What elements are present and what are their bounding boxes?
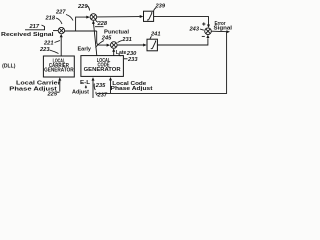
plus sign at summer (202, 22, 205, 25)
svg-text:228: 228 (97, 21, 108, 27)
wire: error signal arrow (211, 30, 227, 33)
wire: late code from code gen up into late mixer (113, 51, 115, 56)
svg-text:231: 231 (121, 37, 132, 43)
tiny arrow between E-L and Adjust (85, 86, 87, 88)
svg-text:E-L: E-L (80, 80, 90, 86)
svg-text:225: 225 (47, 91, 58, 97)
arrowhead into early mixer (86, 16, 90, 19)
box: LOCAL CODE GENERATOR (81, 56, 124, 77)
svg-text:Signal: Signal (214, 26, 233, 32)
svg-text:GENERATOR: GENERATOR (84, 67, 121, 73)
integral symbol in 239 (147, 13, 152, 20)
wire: integrator 241 output to summer bottom (157, 38, 208, 45)
wire: feedback down right side and along bottom (97, 32, 227, 94)
wire: early code from code gen up to early mixer (94, 23, 97, 55)
svg-text:239: 239 (155, 4, 166, 10)
arrowhead into integrator 239 (140, 15, 144, 18)
svg-text:217: 217 (29, 24, 40, 30)
svg-text:221: 221 (43, 41, 54, 47)
svg-text:218: 218 (45, 16, 56, 22)
wire: received signal into mixer 219 (53, 30, 58, 32)
svg-text:(DLL): (DLL) (2, 63, 16, 69)
wire: local carrier phase adjust arrow (59, 80, 61, 92)
summer 243 (205, 28, 212, 35)
label Late bracket (119, 54, 121, 56)
svg-text:245: 245 (101, 36, 112, 42)
wire: early mixer output to integrator 239 (97, 16, 140, 18)
minus sign at summer (202, 35, 205, 37)
wire: feedback up into code generator (local code phase adjust) (110, 80, 112, 93)
svg-text:Phase Adjust: Phase Adjust (111, 86, 153, 92)
integrator box 241 (147, 39, 157, 51)
wire: late mixer output to integrator 241 (117, 44, 143, 46)
svg-text:Adjust: Adjust (72, 90, 89, 96)
mixer U2 (early correlator) (90, 14, 97, 21)
svg-text:229: 229 (77, 4, 88, 10)
arrowhead down into summer (207, 25, 210, 28)
svg-text:Early: Early (78, 47, 92, 53)
integrator box 239 (144, 11, 154, 21)
wire: branch up to early mixer row (76, 17, 87, 31)
wire: punctual drop to punctual mixer (97, 31, 107, 45)
mixer U3 (late correlator) (111, 42, 118, 49)
svg-text:Late: Late (116, 50, 127, 56)
svg-text:235: 235 (95, 83, 106, 89)
wire: carrier from generator up into mixer1 (60, 37, 62, 56)
svg-text:GENERATOR: GENERATOR (44, 68, 74, 74)
svg-text:223: 223 (39, 47, 50, 53)
wire: mixer1 output east to branch (65, 30, 97, 32)
svg-text:243: 243 (189, 27, 200, 33)
svg-text:227: 227 (55, 10, 66, 16)
integral symbol in 241 (151, 41, 156, 49)
mixer U1 (carrier wipeoff) (58, 27, 64, 33)
svg-text:233: 233 (127, 57, 138, 63)
svg-text:Received Signal: Received Signal (1, 32, 54, 38)
svg-text:237: 237 (97, 92, 108, 98)
svg-text:Local Carrier: Local Carrier (16, 80, 61, 86)
svg-text:230: 230 (126, 51, 137, 57)
wire: E-L adjust arrow into code gen (92, 80, 94, 98)
wire: integrator 239 output to summer top (154, 17, 209, 25)
box: LOCAL CARRIER GENERATOR (43, 56, 74, 77)
